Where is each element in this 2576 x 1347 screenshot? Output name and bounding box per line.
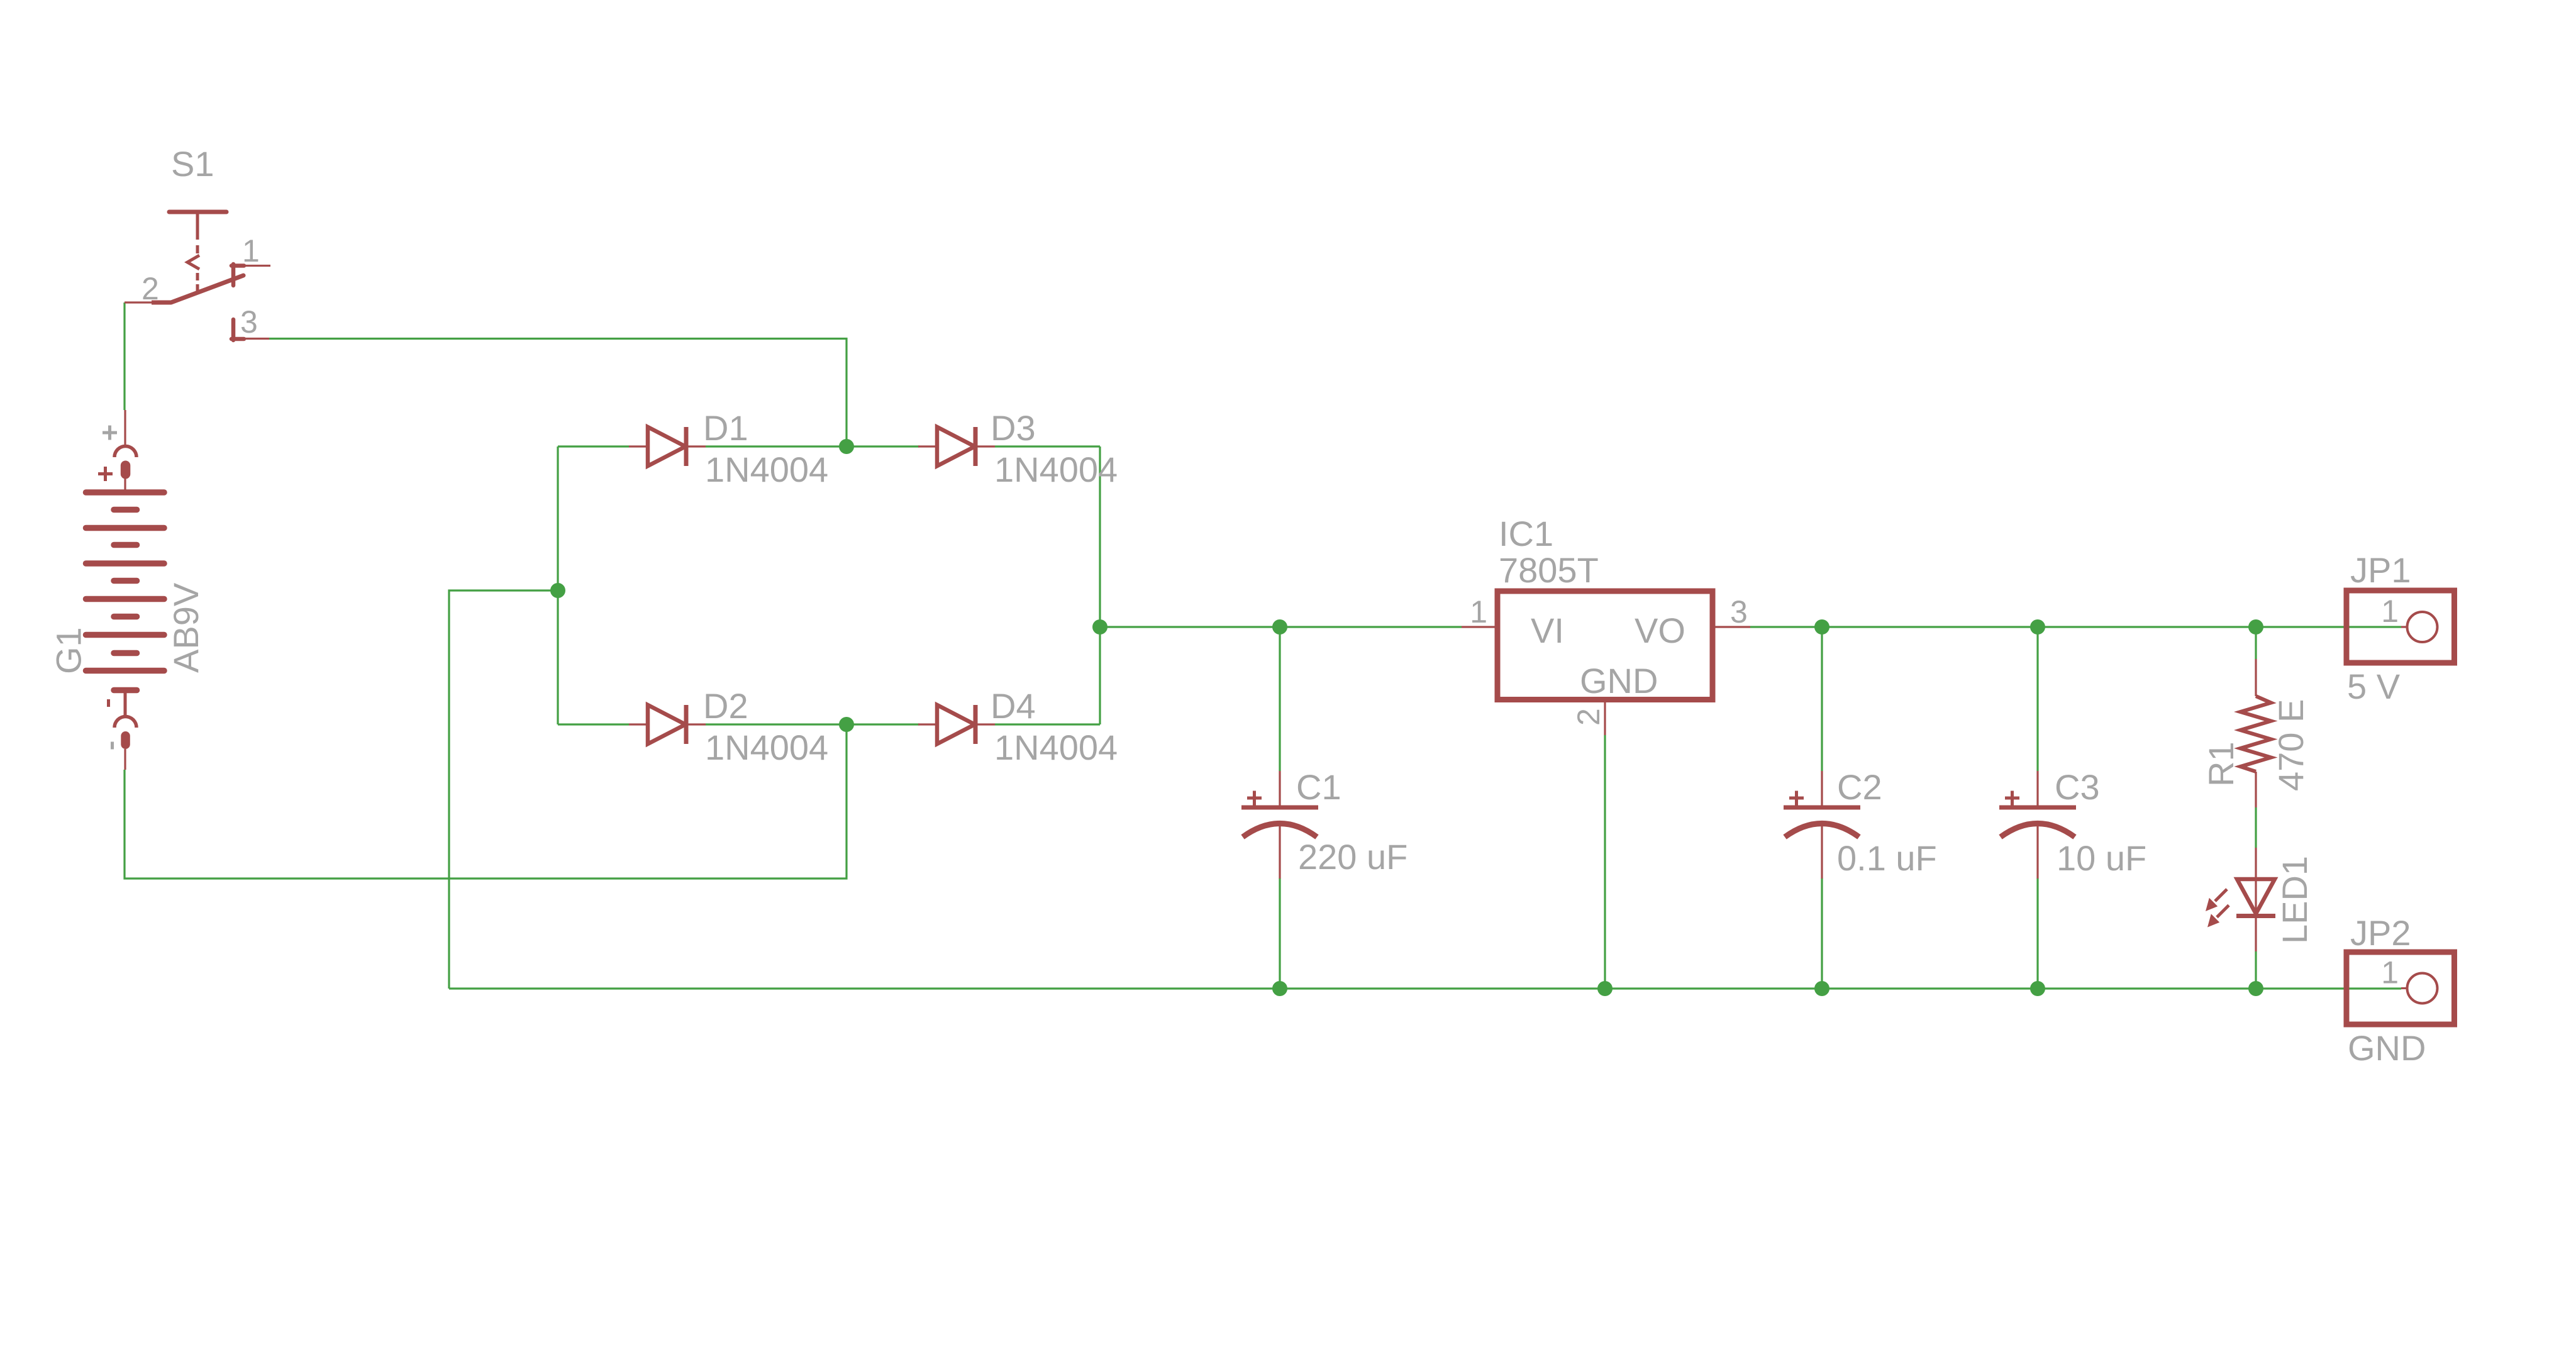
svg-text:G1: G1: [49, 627, 89, 674]
svg-text:220 uF: 220 uF: [1298, 837, 1407, 877]
svg-text:C1: C1: [1296, 767, 1341, 807]
junction bridge right output: [1092, 619, 1108, 635]
wire C1 bottom branch: [1279, 878, 1280, 989]
junction R1 top: [2248, 619, 2263, 635]
svg-text:1: 1: [2381, 594, 2399, 629]
junction bridge bottom: [839, 717, 854, 732]
svg-text:D3: D3: [991, 408, 1036, 448]
junction bridge left: [550, 583, 565, 598]
diode D2: [629, 705, 706, 744]
junction LED1 bottom: [2248, 981, 2263, 996]
svg-text:VO: VO: [1635, 611, 1685, 650]
svg-text:7805T: 7805T: [1499, 550, 1599, 590]
wire bridge right vertical: [1099, 446, 1101, 724]
wire bridge top left segment: [558, 445, 629, 447]
svg-text:1: 1: [1470, 594, 1487, 629]
wire battery minus return loop: [125, 724, 847, 879]
battery minus mark gray: [111, 742, 114, 750]
svg-text:GND: GND: [2348, 1028, 2426, 1068]
junction bridge top: [839, 439, 854, 454]
connector JP1: [2346, 590, 2455, 663]
voltage regulator IC1: [1462, 591, 1750, 735]
svg-text:GND: GND: [1580, 661, 1658, 701]
junction C2 top: [1814, 619, 1829, 635]
svg-text:1: 1: [242, 233, 260, 269]
svg-text:5 V: 5 V: [2347, 667, 2401, 706]
svg-text:470 E: 470 E: [2271, 699, 2311, 791]
resistor R1: [2241, 659, 2272, 807]
wire C2 top branch: [1821, 627, 1823, 771]
LED LED1: [2206, 848, 2275, 951]
battery plus mark gray: [103, 426, 117, 440]
wire C1 top branch: [1279, 627, 1280, 771]
wire bridge bottom left segment: [558, 723, 629, 725]
svg-text:D2: D2: [703, 686, 748, 726]
capacitor C2: [1784, 771, 1860, 879]
S1 pin 2 wire stub: [125, 301, 152, 303]
wire bridge bottom right segment: [995, 723, 1100, 725]
svg-text:1N4004: 1N4004: [705, 450, 828, 489]
svg-text:1: 1: [2381, 955, 2399, 990]
svg-text:D4: D4: [991, 686, 1036, 726]
diode D3: [918, 427, 995, 466]
svg-text:R1: R1: [2201, 741, 2241, 787]
svg-text:2: 2: [142, 271, 159, 306]
junction C1 top: [1272, 619, 1287, 635]
capacitor C1: [1241, 771, 1318, 879]
wire R1 to LED1: [2255, 807, 2257, 848]
svg-text:JP1: JP1: [2350, 550, 2411, 590]
wire bridge top right segment: [995, 445, 1100, 447]
S1 pin 3 wire stub: [244, 338, 269, 340]
svg-text:C3: C3: [2055, 767, 2100, 807]
svg-text:1N4004: 1N4004: [705, 728, 828, 767]
svg-text:3: 3: [240, 304, 258, 340]
svg-text:JP2: JP2: [2350, 913, 2411, 953]
svg-text:1N4004: 1N4004: [994, 728, 1118, 767]
svg-text:0.1 uF: 0.1 uF: [1837, 838, 1937, 878]
wire ground rail: [449, 987, 2401, 989]
svg-text:AB9V: AB9V: [166, 582, 206, 673]
svg-text:2: 2: [1571, 708, 1606, 726]
wire bridge bottom middle segment: [706, 723, 919, 725]
diode D4: [918, 705, 995, 744]
svg-text:1N4004: 1N4004: [994, 450, 1118, 489]
junction C2 bottom: [1814, 981, 1829, 996]
junction C1 bottom: [1272, 981, 1287, 996]
wire LED1 to rail: [2255, 951, 2257, 989]
svg-text:IC1: IC1: [1499, 514, 1553, 553]
junction IC1 GND rail: [1597, 981, 1613, 996]
wire C3 bottom branch: [2036, 878, 2038, 989]
wire IC1 GND pin to rail: [1604, 735, 1606, 989]
wire battery plus to switch pin 2: [123, 302, 125, 410]
svg-text:D1: D1: [703, 408, 748, 448]
wire switch pin 3 to bridge top junction: [269, 339, 847, 447]
capacitor C3: [1999, 771, 2076, 879]
svg-text:LED1: LED1: [2275, 856, 2314, 944]
wire bridge left vertical: [557, 446, 558, 724]
svg-text:3: 3: [1730, 594, 1748, 629]
svg-text:VI: VI: [1531, 611, 1564, 650]
S1 pin 1 wire stub: [244, 265, 270, 267]
connector JP2: [2346, 952, 2455, 1024]
wire IC1 VO to JP1: [1750, 626, 2401, 628]
junction C3 top: [2030, 619, 2045, 635]
svg-text:C2: C2: [1837, 767, 1882, 807]
wire bridge output to IC1 VI: [1100, 626, 1462, 628]
wire C3 top branch: [2036, 627, 2038, 771]
wire C2 bottom branch: [1821, 878, 1823, 989]
wire top to R1: [2255, 627, 2257, 659]
svg-text:10 uF: 10 uF: [2057, 838, 2146, 878]
svg-text:S1: S1: [171, 144, 214, 184]
wire bridge top middle segment: [706, 445, 919, 447]
wire ground feed from bridge left junction: [449, 590, 558, 989]
junction C3 bottom: [2030, 981, 2045, 996]
switch S1: [152, 212, 244, 340]
battery G1: [86, 410, 165, 770]
diode D1: [629, 427, 706, 466]
